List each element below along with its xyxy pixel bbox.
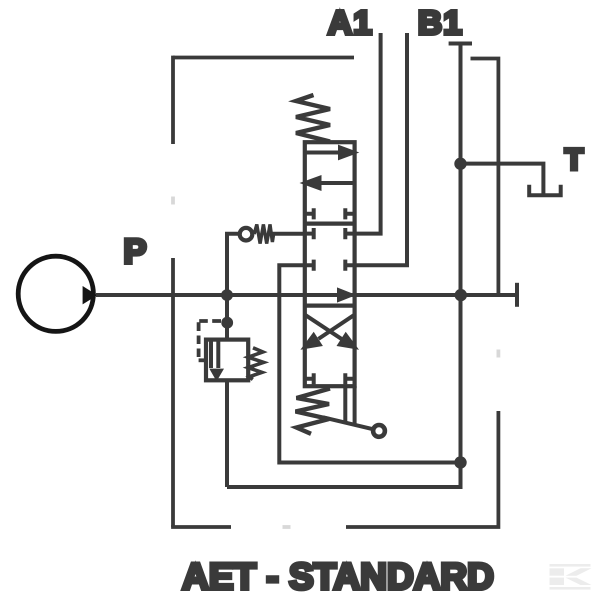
wire tank return left drop [279,265,460,462]
middle position closed port stub right row2 [345,228,354,239]
frame right line upper segment [471,59,499,296]
relief valve internal arrowhead [209,369,224,382]
wire P main line [96,293,517,297]
faint dash remnant bottom frame [283,525,291,529]
junction dot T tank branch [454,158,466,170]
junction dot P relief tap [221,289,233,301]
wire check valve riser [227,234,241,340]
watermark logo [550,564,592,590]
port T terminal crossbar [449,42,472,46]
tank symbol [529,185,561,196]
svg-text:A1: A1 [328,5,373,42]
wire check valve to body [272,232,305,236]
valve body outline [305,142,355,386]
frame bottom left segment [171,525,231,529]
frame left line upper segment [171,56,175,144]
junction dot pilot tap [221,317,233,329]
top position closed port stub right [345,208,354,219]
check valve spring [254,224,273,243]
valve assembly envelope frame (long-dash box) [171,56,498,527]
valve body divider 2 [305,304,355,308]
wire relief valve drain [225,380,229,487]
valve body divider 1 [305,222,355,226]
relief valve spring [248,348,263,380]
middle position closed port stub left row3 [305,260,314,271]
spring bottom of valve [296,389,331,434]
junction dot P T crossing [455,289,467,301]
lever handle [323,417,374,429]
check valve ball circle [240,228,253,241]
lever knob [373,425,385,437]
svg-text:AET - STANDARD: AET - STANDARD [182,556,494,597]
pump flow triangle [83,286,98,304]
relief valve internal flow lines [211,340,218,368]
relief valve body box [206,340,248,381]
frame bottom right segment [346,411,498,527]
middle position P flow arrowhead [337,287,356,302]
top position: arrow left [321,181,355,185]
spring top of valve [296,95,330,142]
top position: arrow right [305,151,339,155]
junction dot T bottom [454,456,466,468]
lever bracket lines [345,386,354,425]
relief valve pilot dashed line [199,319,221,323]
pump circle [18,256,93,331]
bottom position crossed arrow 2 [319,315,355,339]
plugged port crossbar at P line end [515,283,519,307]
wire B1 line [355,33,407,265]
bottom position closed port stub right [345,373,354,384]
wire A1 line [355,33,381,234]
faint dash remnant right frame [496,350,500,358]
top position closed port stub left [305,208,314,219]
wire tank branch [461,164,544,195]
middle position closed port stub left row2 [305,228,314,239]
faint dash remnant left frame [171,197,175,205]
svg-text:T: T [565,144,583,177]
frame top line [173,56,354,60]
svg-text:B1: B1 [418,5,463,42]
bottom position crossed arrow 1 [305,315,342,339]
bottom position closed port stub left [305,373,314,384]
svg-text:P: P [123,233,146,271]
middle position closed port stub right row3 [345,260,354,271]
frame left line lower segment [171,258,175,527]
wire T vertical line [227,44,461,488]
